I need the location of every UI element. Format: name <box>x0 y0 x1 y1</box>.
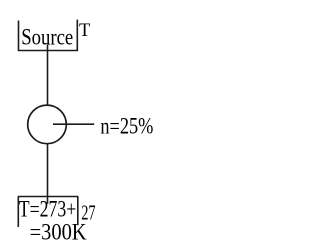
svg-text:T: T <box>79 21 90 41</box>
svg-text:Source: Source <box>21 24 73 49</box>
svg-text:T=273+: T=273+ <box>19 197 77 222</box>
svg-text:=300K: =300K <box>30 220 87 245</box>
svg-text:n=25%: n=25% <box>100 114 153 139</box>
